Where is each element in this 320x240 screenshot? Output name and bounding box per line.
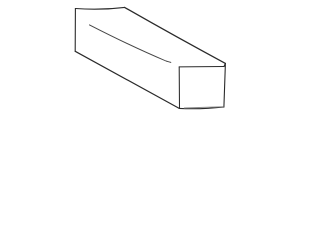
end face left edge bbox=[178, 67, 180, 109]
interior highlight line bbox=[90, 25, 171, 63]
ridge top-right silhouette bbox=[125, 7, 226, 63]
end face bottom edge bbox=[179, 107, 224, 109]
bottom-left silhouette bbox=[75, 51, 179, 108]
end face top edge bbox=[179, 66, 224, 68]
bottom shading line bbox=[184, 107, 223, 108]
part drawing: elongated square-section bar (molding), isometric line art bbox=[0, 0, 300, 120]
top edge far end bbox=[75, 7, 124, 9]
end face right edge with apex bbox=[224, 63, 226, 107]
left end vertical edge bbox=[74, 9, 76, 52]
